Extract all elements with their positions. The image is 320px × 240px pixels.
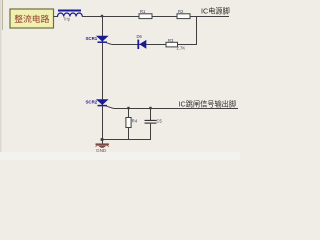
svg-text:SCR2: SCR2	[86, 99, 98, 104]
svg-text:Trip: Trip	[63, 17, 71, 22]
resistor R3	[166, 42, 178, 47]
junction: top wire / main vertical	[101, 15, 103, 17]
svg-text:IC电源脚: IC电源脚	[201, 6, 230, 15]
svg-text:C5: C5	[157, 119, 163, 124]
gate wire to D6/R3	[112, 44, 197, 46]
junction: C5 top	[149, 107, 151, 109]
bottom rail wire	[102, 139, 151, 141]
svg-text:GND: GND	[96, 148, 107, 153]
svg-text:整流电路: 整流电路	[14, 13, 49, 24]
resistor R2	[177, 14, 190, 19]
rectifier block 整流电路	[10, 9, 54, 28]
resistor R1	[139, 14, 152, 19]
junction: bottom rail / main vertical	[101, 138, 104, 141]
ground symbol	[96, 144, 109, 148]
top wire to IC power pin	[82, 16, 229, 18]
svg-text:2.7K: 2.7K	[177, 46, 186, 51]
inductor L1 core bar	[58, 10, 81, 12]
wire: box to inductor	[54, 16, 59, 18]
inductor L1 winding	[58, 13, 83, 17]
gate wire to IC trip output	[114, 108, 238, 110]
wire: vertical from top wire down to gate line (x=196)	[196, 16, 198, 45]
main vertical wire	[102, 16, 104, 144]
svg-text:R4: R4	[132, 119, 138, 124]
capacitor C5	[145, 120, 157, 123]
resistor R4	[126, 118, 131, 128]
svg-text:SCR1: SCR1	[86, 36, 98, 41]
capacitor C5 top lead	[150, 108, 152, 120]
resistor R4 leads	[128, 108, 130, 140]
svg-text:D6: D6	[137, 34, 143, 39]
junction: R4 top	[127, 107, 129, 109]
svg-text:IC跳闸信号输出脚: IC跳闸信号输出脚	[179, 99, 237, 108]
capacitor C5 bottom lead	[150, 124, 152, 140]
thyristor SCR2	[96, 99, 114, 108]
diode D6	[138, 40, 146, 49]
thyristor SCR1	[96, 36, 112, 45]
